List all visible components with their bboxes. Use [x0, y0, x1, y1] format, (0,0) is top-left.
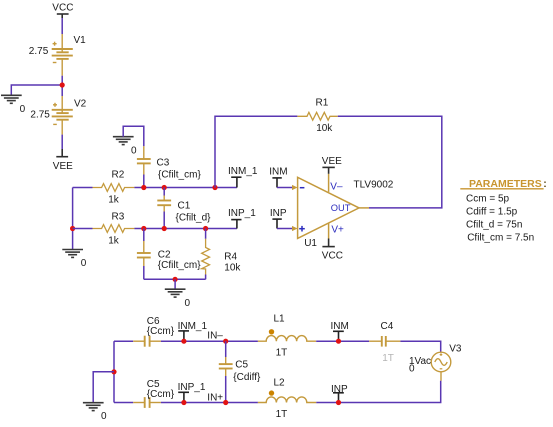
junction feedback / row INM_1 — [212, 185, 217, 190]
power symbol VCC (op-amp) — [322, 239, 334, 247]
wire row IN+ left — [114, 402, 133, 404]
svg-text:V–: V– — [330, 181, 343, 192]
junction left rail / R3 — [70, 226, 75, 231]
ground 0 (above C3) — [113, 137, 134, 145]
pin arrow non-inverting input — [292, 226, 298, 231]
wire V3 to row IN+ — [316, 381, 441, 403]
wire L1 to C4 — [316, 340, 369, 342]
junction INP_1 port / row — [181, 400, 186, 405]
svg-text:INM_1: INM_1 — [228, 166, 258, 177]
junction C1 / row INM_1 — [162, 185, 167, 190]
wire left rail to R3 — [73, 228, 93, 230]
wire junction to ground (bottom left) — [93, 372, 114, 403]
wire feedback vertical (R1 left to row INM_1) — [215, 116, 297, 187]
wire INP port to op-amp — [277, 228, 292, 230]
wire left rail bottom section — [113, 341, 115, 402]
svg-text:C4: C4 — [381, 321, 394, 332]
svg-text:C1: C1 — [178, 200, 191, 211]
svg-text:VEE: VEE — [53, 161, 73, 172]
svg-text:IN+: IN+ — [207, 393, 223, 404]
wire INM port to op-amp — [277, 187, 292, 189]
svg-text:V3: V3 — [449, 343, 462, 354]
svg-text:10k: 10k — [316, 123, 333, 134]
svg-text:INP: INP — [270, 208, 287, 219]
inductor L1 1T — [258, 336, 316, 342]
svg-text:0: 0 — [185, 298, 191, 309]
svg-text:VEE: VEE — [322, 156, 342, 167]
svg-text:{Cdiff}: {Cdiff} — [233, 372, 261, 383]
svg-text:10k: 10k — [224, 263, 241, 274]
svg-text:0: 0 — [409, 364, 415, 375]
junction Cdiff / row IN- — [223, 339, 228, 344]
wire V1 to V2 — [61, 76, 63, 96]
svg-text:U1: U1 — [304, 238, 317, 249]
wire C2-R4 bottom row — [144, 278, 206, 280]
svg-text:INP_1: INP_1 — [228, 208, 256, 219]
svg-text:{Ccm}: {Ccm} — [147, 326, 175, 337]
ground 0 (below C2/R4) — [165, 289, 186, 297]
port INM (op-amp input) — [272, 178, 281, 188]
polarity dot L2 — [269, 390, 274, 395]
svg-text:Cfilt_d = 75n: Cfilt_d = 75n — [466, 220, 522, 231]
wire R1 right to output (feedback) — [338, 116, 442, 208]
svg-text:2.75: 2.75 — [29, 46, 49, 57]
svg-text:Cfilt_cm = 7.5n: Cfilt_cm = 7.5n — [467, 233, 534, 244]
ground 0 (bottom left) — [83, 403, 104, 411]
svg-text:1T: 1T — [382, 353, 394, 364]
svg-text:R1: R1 — [316, 97, 329, 108]
junction R4 / row INP_1 — [203, 226, 208, 231]
svg-text:{Cfilt_d}: {Cfilt_d} — [176, 212, 212, 223]
svg-text:INP_1: INP_1 — [178, 382, 206, 393]
svg-text:{Ccm}: {Ccm} — [147, 389, 175, 400]
svg-text:V2: V2 — [74, 99, 87, 110]
svg-text:V+: V+ — [331, 224, 344, 235]
port INP_1 (row INP_1) — [231, 220, 241, 229]
ground 0 (top left) — [1, 95, 22, 103]
capacitor C5 {Ccm} — [133, 397, 161, 408]
svg-text:C2: C2 — [158, 249, 171, 260]
svg-text::: : — [543, 178, 547, 190]
svg-text:IN–: IN– — [207, 331, 223, 342]
wire row INM_1 (R2 to port) — [134, 187, 237, 189]
junction left rail bottom — [111, 369, 116, 374]
junction C2 / row INP_1 — [141, 226, 146, 231]
junction INM_1 port / row — [181, 339, 186, 344]
svg-text:INP: INP — [331, 384, 348, 395]
svg-text:0: 0 — [81, 258, 87, 269]
svg-text:L1: L1 — [274, 314, 286, 325]
svg-text:1k: 1k — [108, 236, 120, 247]
resistor R4 10k — [205, 229, 207, 239]
ground 0 (left rail) — [62, 250, 83, 258]
junction C3 / row INM_1 — [141, 185, 146, 190]
port INP (op-amp input) — [272, 219, 281, 228]
capacitor C3 {Cfilt_cm} — [137, 146, 151, 174]
svg-text:R4: R4 — [224, 251, 237, 262]
svg-text:Ccm = 5p: Ccm = 5p — [466, 193, 510, 204]
port INP_1 (bottom) — [178, 392, 189, 402]
pin arrow inverting input — [292, 185, 298, 190]
svg-text:0: 0 — [20, 104, 26, 115]
power symbol VEE (bottom of source chain) — [56, 149, 68, 157]
svg-text:VCC: VCC — [322, 251, 343, 262]
wire VCC to V1 — [61, 18, 63, 34]
port INM_1 (row INM_1) — [231, 177, 241, 187]
capacitor C6 {Ccm} — [133, 336, 161, 347]
svg-text:VCC: VCC — [52, 2, 73, 13]
wire junction to ground (top left) — [11, 85, 62, 95]
voltage source V2 — [52, 96, 73, 135]
wire C4 to V3 — [400, 341, 440, 352]
svg-text:INM_1: INM_1 — [178, 321, 208, 332]
junction V1-V2 midpoint — [60, 82, 65, 87]
wire row INP_1 (R3 to port) — [134, 228, 237, 230]
svg-text:TLV9002: TLV9002 — [354, 180, 394, 191]
resistor R1 10k — [297, 112, 337, 120]
wire C3 to row INM_1 — [143, 175, 145, 188]
wire left rail to R2 — [73, 187, 93, 189]
port INP (bottom) — [333, 393, 344, 403]
capacitor C2 {Cfilt_cm} — [143, 229, 145, 242]
wire C6 to L1 — [161, 340, 258, 342]
power symbol VCC (top left) — [57, 14, 69, 18]
svg-text:1T: 1T — [276, 348, 288, 359]
wire V2 to VEE — [61, 135, 63, 149]
resistor R3 1k — [93, 225, 135, 233]
svg-text:INM: INM — [269, 167, 287, 178]
voltage source V3 (AC) — [431, 352, 451, 381]
svg-text:Cdiff = 1.5p: Cdiff = 1.5p — [466, 206, 518, 217]
resistor R2 1k — [93, 184, 135, 192]
minus sign inverting input — [300, 187, 305, 189]
junction INM port / row — [336, 339, 341, 344]
junction C1 / row INP_1 — [162, 226, 167, 231]
junction bottom ground — [173, 277, 178, 282]
wire ground to C3 top — [123, 126, 144, 146]
svg-text:1T: 1T — [276, 409, 288, 420]
svg-text:R2: R2 — [112, 170, 125, 181]
plus sign non-inverting input — [299, 226, 305, 232]
svg-text:C3: C3 — [157, 158, 170, 169]
port INM (bottom) — [333, 331, 344, 341]
wire C5 to L2 — [161, 402, 258, 404]
svg-text:L2: L2 — [274, 378, 286, 389]
junction INP port / row — [336, 400, 341, 405]
port INM_1 (bottom) — [178, 331, 189, 341]
svg-text:{Cfilt_cm}: {Cfilt_cm} — [158, 260, 201, 271]
wire row IN- left — [114, 340, 133, 342]
svg-text:{Cfilt_cm}: {Cfilt_cm} — [158, 170, 201, 181]
wire left rail (R2/R3 to ground) — [72, 188, 74, 250]
svg-text:R3: R3 — [112, 212, 125, 223]
wire junction to ground (below C2/R4) — [174, 279, 176, 289]
voltage source V1 — [52, 34, 73, 76]
power symbol VEE (op-amp) — [322, 167, 334, 173]
svg-text:C5: C5 — [235, 360, 248, 371]
svg-text:V1: V1 — [74, 35, 87, 46]
op-amp U1 TLV9002 — [298, 174, 369, 239]
svg-text:1k: 1k — [108, 194, 120, 205]
svg-text:0: 0 — [101, 411, 107, 422]
svg-text:2.75: 2.75 — [30, 110, 50, 121]
capacitor C1 {Cfilt_d} — [163, 188, 165, 196]
svg-text:INM: INM — [331, 321, 349, 332]
inductor L2 1T — [258, 397, 316, 403]
polarity dot L1 — [269, 329, 274, 334]
capacitor C5 {Cdiff} — [225, 341, 227, 357]
junction Cdiff / row IN+ — [223, 400, 228, 405]
svg-text:OUT: OUT — [331, 203, 351, 213]
capacitor C4 — [369, 336, 400, 347]
svg-text:0: 0 — [131, 145, 137, 156]
